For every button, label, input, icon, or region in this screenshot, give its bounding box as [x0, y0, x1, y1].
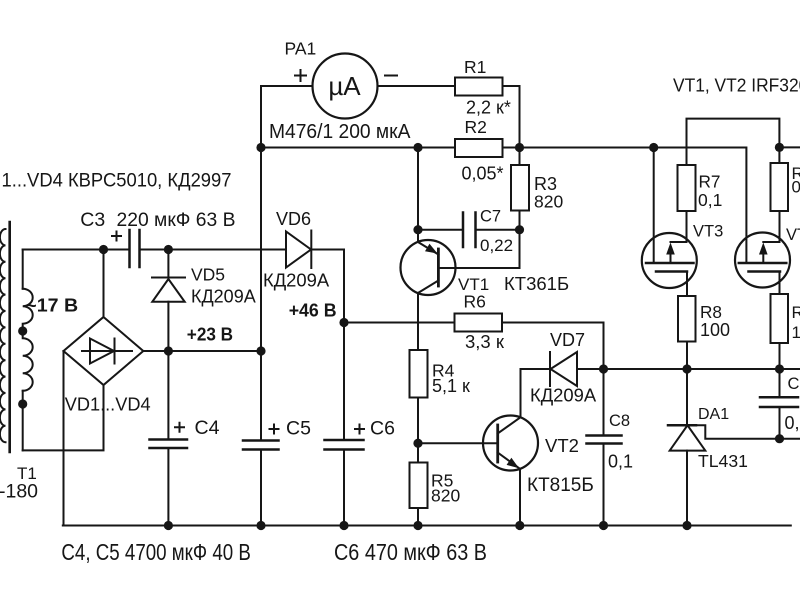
svg-text:DA1: DA1	[698, 406, 729, 423]
bridge rectifier VD1...VD4 diamond	[64, 317, 144, 385]
svg-text:C5: C5	[286, 418, 311, 440]
svg-text:VD1...VD4: VD1...VD4	[65, 395, 151, 415]
wire output line	[604, 368, 800, 370]
wire C4 leads	[167, 351, 169, 526]
transformer T1 primary winding	[0, 229, 6, 442]
resistor R4 5,1k	[410, 350, 428, 398]
svg-text:КД209А: КД209А	[530, 385, 597, 406]
svg-text:КД209А: КД209А	[263, 270, 330, 291]
wire C5 bottom lead	[260, 450, 262, 526]
node X dot (PA1+/M476 line)	[256, 143, 265, 152]
svg-text:+46 В: +46 В	[289, 301, 337, 321]
svg-text:0,22: 0,22	[480, 236, 513, 255]
svg-text:R2: R2	[465, 117, 487, 137]
capacitor C3 plates	[130, 230, 140, 267]
svg-text:R8: R8	[700, 302, 722, 322]
svg-text:C7: C7	[480, 208, 501, 226]
transistor VT4 MOSFET circle	[735, 233, 790, 288]
svg-text:5,1 к: 5,1 к	[432, 376, 470, 396]
ground bus dot C4	[164, 521, 173, 530]
meter PA1 plus sign	[295, 70, 306, 81]
transistor VT3 MOSFET circle	[642, 233, 697, 288]
C5 polarity plus	[269, 424, 280, 435]
svg-text:КД209А: КД209А	[191, 287, 256, 307]
wire ground bus bottom	[63, 525, 791, 527]
transformer tap dot lower	[18, 399, 27, 408]
node R2 right dot	[515, 143, 524, 152]
wire bridge bottom vertex to transformer	[23, 385, 104, 450]
resistor R7 0,1	[678, 165, 696, 211]
wire +23 rail	[143, 350, 261, 352]
wire left column x261 (PA1+ to C5)	[260, 86, 262, 441]
wire VD7 cathode to VT2 collector	[521, 369, 551, 417]
wire VT3 gate drop	[653, 148, 655, 264]
svg-text:C6: C6	[370, 418, 395, 440]
node output dot C8	[599, 364, 608, 373]
wire R1 right to R3 column	[503, 86, 520, 165]
C3 polarity plus	[111, 231, 122, 242]
wire rail stub right of R9 node	[779, 146, 800, 148]
wire R4 to R5	[417, 398, 419, 463]
svg-text:0,05*: 0,05*	[462, 164, 504, 184]
wire VT3 drain jog	[671, 211, 687, 263]
wire VT4 drain jog	[763, 211, 779, 263]
capacitor C4 plates	[150, 440, 188, 449]
wire gate rail to VT4	[520, 148, 747, 264]
ground bus dot R5	[413, 521, 422, 530]
capacitor C9 plates	[760, 397, 798, 407]
node VT3 gate dot	[649, 143, 658, 152]
node +23 V dot left	[164, 346, 173, 355]
svg-text:VD6: VD6	[276, 209, 311, 229]
svg-text:КТ815Б: КТ815Б	[527, 475, 594, 496]
transistor VT2 base bar	[496, 425, 499, 462]
wire VT1 base loop	[438, 230, 519, 268]
svg-text:TL431: TL431	[698, 451, 748, 471]
capacitor C5 plates	[243, 441, 279, 450]
capacitor C8 plates	[587, 436, 622, 444]
transistor VT2 emitter line	[498, 453, 520, 469]
transformer tap dot upper	[18, 326, 27, 335]
TL431 DA1 cathode bar	[668, 424, 696, 427]
node R9 top dot	[775, 143, 784, 152]
svg-text:C4, C5 4700 мкФ 40 В: C4, C5 4700 мкФ 40 В	[61, 539, 251, 565]
resistor R6 3,3k	[455, 314, 503, 332]
wire VT3 source to R8	[686, 272, 688, 297]
wire R7 top loop to R9 node	[687, 119, 780, 165]
meter PA1 minus sign	[385, 75, 397, 77]
bridge rectifier inner diode	[82, 339, 132, 364]
svg-text:КТ361Б: КТ361Б	[504, 273, 569, 294]
svg-text:VD5: VD5	[191, 265, 225, 285]
transistor VT4 gate bar	[739, 262, 787, 265]
resistor R10 (right edge)	[771, 294, 789, 343]
wire VT4 source to R10	[779, 272, 781, 295]
resistor R8 100	[678, 296, 696, 342]
svg-text:VD7: VD7	[550, 330, 585, 350]
svg-text:+23 В: +23 В	[187, 325, 233, 345]
svg-text:R10: R10	[792, 303, 800, 322]
wire VD5 leads	[167, 250, 169, 352]
wire VT2 emitter down	[519, 469, 521, 526]
wire VT1 emitter column	[417, 148, 419, 243]
transformer T1 core	[8, 222, 11, 452]
svg-text:C6 470 мкФ 63 В: C6 470 мкФ 63 В	[334, 539, 487, 565]
svg-text:820: 820	[431, 486, 460, 506]
transistor VT1 emitter line	[418, 242, 438, 255]
wire DA1 cathode and anode leads	[686, 369, 688, 526]
resistor R9 (right edge)	[771, 163, 789, 211]
wire R8 bottom to output node	[686, 342, 688, 370]
svg-text:-180: -180	[0, 481, 38, 503]
wire R5 bottom	[417, 508, 419, 526]
node VT1 emitter top dot	[413, 143, 422, 152]
wire R6 to output node	[502, 323, 604, 370]
wire PA1 plus lead	[261, 85, 313, 87]
svg-text:R1: R1	[464, 57, 486, 77]
wire VD6 cathode corner down to +46 node	[343, 250, 345, 323]
resistor R3 820	[511, 165, 529, 211]
wire C6 leads	[343, 323, 345, 526]
ground bus dot C8 bottom	[599, 521, 608, 530]
wire VT1 collector to R4	[417, 293, 419, 350]
diode VD7 КД209А	[549, 352, 551, 386]
transistor VT1 base bar	[437, 249, 440, 286]
wire C7 right lead	[476, 229, 520, 231]
svg-text:VT4: VT4	[786, 226, 800, 244]
svg-text:PA1: PA1	[285, 39, 317, 59]
ground bus dot C5	[256, 521, 265, 530]
transistor VT3 gate bar	[646, 262, 694, 265]
wire VT2 base lead	[418, 442, 498, 444]
svg-text:C9: C9	[788, 375, 800, 393]
svg-text:C4: C4	[195, 417, 220, 439]
wire M476 line (node X to R2 left)	[261, 147, 455, 149]
svg-text:100: 100	[792, 323, 800, 342]
transistor VT4 channel bar	[749, 270, 781, 273]
transistor VT2 collector line	[498, 417, 521, 433]
svg-text:R6: R6	[464, 292, 486, 312]
wire R3 bottom	[519, 211, 521, 230]
node C7 right dot	[515, 225, 524, 234]
svg-text:R7: R7	[699, 172, 721, 192]
svg-text:~17 В: ~17 В	[25, 296, 78, 316]
transistor VT3 substrate arrow	[666, 243, 675, 255]
node output dot C9	[775, 364, 784, 373]
node A dot (C3/VD5/VD6)	[164, 245, 173, 254]
svg-text:0,1: 0,1	[785, 413, 800, 433]
transformer T1 secondary winding	[23, 289, 33, 391]
wire C3 right to VD6	[140, 249, 287, 251]
resistor R2 0,05	[455, 139, 503, 157]
transistor VT1 collector line	[418, 281, 438, 294]
wire VD7 anode stub	[577, 368, 604, 370]
wire C7 left lead	[418, 229, 463, 231]
ground bus dot DA1 bottom	[682, 521, 691, 530]
node VT2 base dot	[413, 439, 422, 448]
diode VD5 КД209А	[152, 277, 185, 279]
node C7 left dot	[413, 225, 422, 234]
svg-text:0,1: 0,1	[608, 452, 633, 472]
node bridge top dot	[99, 245, 108, 254]
wire bridge minus column	[63, 351, 65, 526]
wire transformer top to C3	[23, 249, 130, 251]
svg-text:220 мкФ 63 В: 220 мкФ 63 В	[117, 209, 236, 231]
C4 polarity plus	[174, 422, 185, 433]
meter PA1 circle	[313, 54, 378, 119]
transistor VT2 KT815B (NPN) circle	[483, 416, 538, 471]
transistor VT4 substrate arrow	[759, 243, 768, 255]
node +23 V dot right	[256, 346, 265, 355]
transistor VT1 emitter arrow (PNP into base)	[425, 244, 438, 254]
wire C8 branch	[603, 369, 605, 526]
svg-text:3,3 к: 3,3 к	[465, 331, 505, 352]
svg-text:М476/1 200 мкА: М476/1 200 мкА	[269, 121, 411, 143]
wire +46 rail	[344, 322, 455, 324]
node +46 V dot	[339, 318, 348, 327]
svg-text:100: 100	[700, 320, 730, 340]
svg-text:VT3: VT3	[693, 223, 723, 241]
svg-text:2,2 к*: 2,2 к*	[466, 98, 511, 118]
svg-text:µА: µА	[328, 71, 361, 101]
transistor VT1 KT361B (PNP) circle	[401, 240, 456, 295]
ground bus dot C6	[339, 521, 348, 530]
wire C9 leads	[779, 369, 781, 439]
wire transformer secondary top lead	[22, 250, 24, 289]
wire transformer secondary bottom	[22, 391, 24, 451]
wire R10 bottom to output node	[779, 343, 781, 369]
svg-text:VT1, VT2 IRF3205: VT1, VT2 IRF3205	[673, 74, 800, 95]
resistor R1 2,2k	[455, 78, 503, 96]
capacitor C6 plates	[325, 440, 364, 450]
transistor VT2 emitter arrow (NPN outward)	[507, 458, 519, 469]
svg-text:C8: C8	[609, 412, 630, 430]
svg-text:0,1: 0,1	[792, 178, 800, 197]
wire VD6 cathode stub	[311, 249, 344, 251]
node ref dot C9 bottom	[775, 434, 784, 443]
svg-text:0,1: 0,1	[698, 190, 722, 210]
capacitor C7 plates	[463, 213, 476, 248]
node output dot DA1	[682, 364, 691, 373]
TL431 DA1 triangle	[670, 425, 706, 450]
diode VD6 КД209А	[310, 231, 312, 269]
svg-text:VT2: VT2	[545, 435, 579, 456]
wire DA1 ref pin	[696, 425, 800, 438]
wire bridge top vertex drop	[103, 250, 105, 318]
wire R2 right stub	[503, 147, 520, 149]
svg-text:C3: C3	[80, 209, 105, 231]
wire PA1 minus to R1 left	[378, 85, 456, 87]
svg-text:820: 820	[534, 192, 563, 212]
ground bus dot VT2 emitter	[515, 521, 524, 530]
resistor R5 820	[410, 463, 428, 509]
transistor VT3 channel bar	[656, 270, 687, 273]
C6 polarity plus	[354, 424, 365, 435]
svg-text:1...VD4 КВРС5010, КД2997: 1...VD4 КВРС5010, КД2997	[2, 170, 232, 192]
